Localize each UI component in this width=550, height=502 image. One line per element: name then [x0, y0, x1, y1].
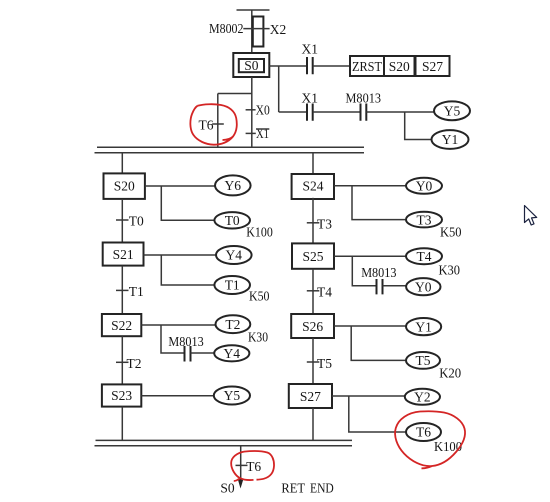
svg-text:T0: T0 — [225, 213, 240, 228]
parallel rail top line1 — [97, 146, 364, 148]
transition T4 tick — [307, 290, 320, 292]
svg-text:K50: K50 — [440, 224, 462, 239]
arrow to S0 — [238, 479, 244, 489]
transition X1bar tick — [246, 132, 256, 134]
svg-text:S20: S20 — [389, 59, 410, 74]
wire S0 down to rail — [251, 77, 253, 147]
svg-text:T6: T6 — [246, 459, 261, 474]
transition T0 tick — [116, 219, 129, 221]
svg-text:T6: T6 — [416, 425, 431, 440]
wire S26 to S27 — [312, 338, 314, 384]
step S27 — [289, 384, 332, 408]
svg-text:K30: K30 — [248, 329, 268, 344]
coil Y0 — [406, 178, 442, 194]
coil Y6 — [215, 175, 251, 195]
transition T6 tick bottom — [236, 464, 248, 466]
svg-text:Y4: Y4 — [224, 346, 241, 361]
coil Y4 second — [214, 345, 249, 361]
contact X1 row2 — [307, 104, 313, 121]
step S20 — [104, 173, 145, 199]
coil Y1 right column — [406, 318, 441, 335]
wire X1 to ZRST — [313, 65, 350, 67]
svg-text:T3: T3 — [417, 212, 432, 227]
svg-text:M8013: M8013 — [361, 265, 397, 280]
contact M8013 row2 — [361, 104, 367, 121]
step S0 outer box — [233, 53, 269, 77]
wire top entry bar — [237, 9, 270, 11]
svg-text:S20: S20 — [114, 179, 135, 194]
wire S23 to Y5 — [141, 395, 213, 397]
svg-text:RET: RET — [281, 480, 305, 495]
svg-text:X2: X2 — [270, 22, 287, 37]
svg-text:S0: S0 — [244, 58, 259, 73]
svg-text:Y6: Y6 — [225, 178, 242, 193]
wire S23 to bottom rail — [121, 407, 123, 441]
wire drop to T5 — [351, 326, 406, 360]
svg-text:Y4: Y4 — [226, 248, 243, 263]
wire drop to T3 — [352, 186, 406, 220]
wire drop to T0 — [161, 186, 214, 220]
coil Y1 top — [432, 130, 469, 149]
coil Y2 — [405, 389, 440, 405]
svg-text:T2: T2 — [127, 356, 142, 371]
wire drop to Y1 top — [405, 112, 432, 140]
red annotation circle around T6 K100 — [395, 411, 465, 468]
wire S25 to T4 — [334, 255, 406, 257]
svg-text:S21: S21 — [113, 247, 134, 262]
wire S21 to S22 — [121, 266, 123, 314]
svg-text:S27: S27 — [422, 59, 443, 74]
wire S27 to Y2 — [332, 395, 405, 397]
coil Y5 left column — [214, 387, 250, 405]
parallel rail bottom line2 — [95, 445, 353, 447]
wire S0 to X1 — [269, 65, 307, 67]
svg-text:S24: S24 — [302, 178, 323, 193]
mouse cursor — [525, 206, 537, 226]
wire branch drop to row2 — [279, 66, 307, 112]
wire S25 to S26 — [312, 269, 314, 314]
step S25 — [292, 243, 334, 268]
svg-text:T4: T4 — [417, 249, 432, 264]
svg-text:S0: S0 — [220, 480, 235, 495]
svg-text:T1: T1 — [129, 284, 144, 299]
wire bottom rail to S0 jump — [240, 446, 242, 481]
transition X0 tick — [246, 109, 256, 111]
wire S22 to T2 — [141, 324, 215, 326]
wire T6 branch left — [218, 94, 252, 148]
svg-text:ZRST: ZRST — [352, 59, 383, 74]
coil T5 — [406, 352, 440, 369]
step S22 — [102, 314, 141, 336]
svg-text:T3: T3 — [317, 217, 332, 232]
svg-text:T0: T0 — [129, 214, 144, 229]
wire S22 to S23 — [121, 336, 123, 384]
svg-text:K20: K20 — [439, 366, 461, 381]
svg-text:Y2: Y2 — [414, 390, 431, 405]
step S26 — [291, 314, 334, 338]
wire drop to T6 coil — [349, 396, 406, 432]
svg-text:S26: S26 — [302, 319, 323, 334]
contact M8002 tick — [243, 28, 269, 30]
svg-text:T4: T4 — [317, 285, 332, 300]
svg-text:Y5: Y5 — [444, 104, 461, 119]
wire M8013 to Y4b — [191, 352, 215, 354]
svg-text:Y1: Y1 — [442, 132, 459, 147]
svg-text:M8013: M8013 — [346, 90, 382, 105]
wire rail to S20 — [121, 153, 123, 174]
coil T3 — [406, 212, 442, 228]
coil Y5 top — [434, 101, 470, 120]
svg-text:K100: K100 — [246, 224, 273, 239]
wire S20 to S21 — [121, 199, 123, 243]
coil T6 — [406, 423, 441, 441]
svg-text:END: END — [310, 480, 334, 495]
svg-text:T2: T2 — [225, 317, 240, 332]
coil Y4 — [216, 246, 252, 264]
coil T0 — [214, 212, 250, 228]
wire drop to M8013 left — [161, 325, 184, 353]
contact X1 row1 — [307, 57, 313, 74]
svg-text:K50: K50 — [249, 289, 270, 304]
step S24 — [292, 174, 334, 199]
svg-text:S27: S27 — [300, 389, 321, 404]
transition T1 tick — [116, 289, 129, 291]
red annotation circle around T6 — [190, 104, 236, 145]
wire S26 to Y1 — [334, 325, 406, 327]
svg-text:S22: S22 — [111, 318, 132, 333]
func ZRST box — [350, 56, 384, 76]
contact M8013 right — [377, 279, 383, 294]
parallel rail top line2 — [95, 152, 365, 154]
wire X1 to M8013 row2 — [313, 111, 361, 113]
wire M8013 to Y5 — [366, 111, 434, 113]
parallel rail bottom line1 — [96, 439, 353, 441]
step S23 — [102, 384, 141, 406]
svg-text:K30: K30 — [439, 262, 461, 277]
wire drop to T1 — [161, 255, 214, 285]
wire S27 to bottom rail — [312, 408, 314, 440]
svg-text:Y0: Y0 — [415, 279, 432, 294]
coil Y0 second — [406, 278, 440, 295]
transition T3 tick — [307, 222, 320, 224]
transition T5 tick — [307, 361, 320, 363]
contact M8013 left — [185, 346, 191, 362]
transition T2 tick — [116, 361, 129, 363]
wire S24 to Y0 — [334, 185, 406, 187]
svg-text:K100: K100 — [434, 439, 462, 454]
svg-text:X0: X0 — [256, 102, 270, 117]
wire S24 to S25 — [312, 198, 314, 244]
wire drop to M8013 right — [352, 256, 376, 286]
svg-text:S25: S25 — [302, 249, 323, 264]
red annotation circle around bottom T6 — [231, 451, 274, 481]
coil T4 — [406, 248, 442, 264]
wire main vertical from top — [251, 10, 253, 53]
svg-text:T1: T1 — [225, 278, 240, 293]
step S0 inner box — [239, 59, 264, 72]
svg-text:X1: X1 — [302, 91, 319, 106]
transition T6 tick — [212, 123, 224, 125]
contact X2 box — [253, 17, 264, 47]
wire S21 to Y4 — [144, 254, 217, 256]
svg-text:T6: T6 — [199, 118, 214, 133]
svg-text:Y0: Y0 — [416, 179, 433, 194]
step S21 — [103, 243, 144, 266]
svg-text:T5: T5 — [416, 353, 431, 368]
wire M8013 to Y0b — [383, 285, 407, 287]
svg-text:T5: T5 — [317, 356, 332, 371]
svg-text:S23: S23 — [111, 388, 132, 403]
operand S27 box — [416, 56, 450, 76]
svg-text:M8002: M8002 — [209, 21, 244, 36]
wire rail to S24 — [312, 153, 314, 174]
svg-text:X1: X1 — [302, 42, 319, 57]
coil T2 — [216, 315, 251, 333]
svg-text:Y5: Y5 — [224, 388, 241, 403]
wire S20 to Y6 — [145, 185, 215, 187]
svg-text:M8013: M8013 — [168, 334, 204, 349]
operand S20 box — [384, 56, 415, 76]
svg-text:Y1: Y1 — [415, 319, 432, 334]
coil T1 — [214, 276, 250, 294]
